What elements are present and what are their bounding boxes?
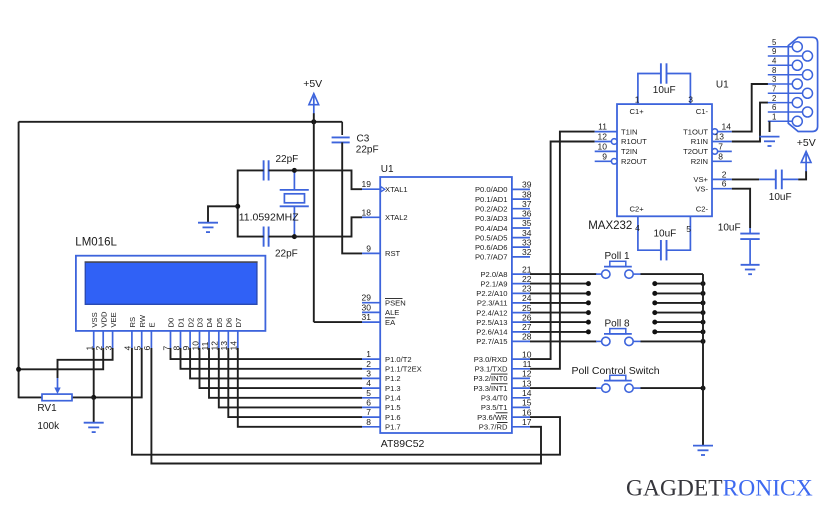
wire P3.0 RXD to R1OUT: [530, 142, 595, 360]
svg-text:LM016L: LM016L: [75, 236, 117, 248]
svg-text:29: 29: [362, 293, 372, 303]
label 10uF VS+: [769, 192, 792, 203]
max232 left pin numbers: [598, 122, 608, 162]
+5V power symbol: [309, 94, 319, 114]
svg-text:7: 7: [366, 407, 371, 417]
svg-text:11: 11: [523, 359, 532, 369]
svg-text:+5V: +5V: [303, 78, 322, 90]
svg-text:22pF: 22pF: [276, 154, 299, 165]
svg-text:31: 31: [362, 312, 372, 322]
svg-text:8: 8: [772, 66, 776, 75]
svg-text:23: 23: [522, 284, 532, 294]
svg-text:RS: RS: [128, 317, 137, 328]
svg-text:U1: U1: [381, 164, 394, 175]
mcu left pin names: [385, 185, 422, 432]
label 22pF top: [276, 154, 299, 165]
svg-text:9: 9: [602, 151, 607, 161]
svg-text:RV1: RV1: [37, 403, 57, 414]
svg-text:D5: D5: [215, 318, 224, 328]
ground crystal: [198, 223, 218, 232]
svg-text:4: 4: [635, 223, 640, 233]
svg-text:E: E: [148, 322, 157, 327]
svg-text:D2: D2: [186, 318, 195, 328]
db9 pin lines: [768, 47, 808, 122]
label U1 (AT89C52): [381, 164, 394, 175]
svg-text:12: 12: [598, 132, 608, 142]
svg-text:MAX232: MAX232: [588, 220, 632, 232]
svg-text:9: 9: [772, 47, 776, 56]
svg-text:8: 8: [366, 417, 371, 427]
svg-text:10uF: 10uF: [653, 85, 676, 96]
max232 pin4/pin5 bottom stubs: [638, 216, 691, 250]
label +5V right: [797, 137, 816, 149]
svg-text:C2+: C2+: [630, 204, 645, 213]
svg-text:3: 3: [772, 75, 776, 84]
wire Poll1 to bus: [641, 273, 704, 275]
svg-text:37: 37: [522, 199, 532, 209]
+5V power symbol right: [801, 152, 811, 172]
node +5V rail junction: [311, 119, 316, 124]
svg-text:XTAL2: XTAL2: [385, 213, 408, 222]
wire +5V stem to EA: [313, 113, 315, 322]
svg-text:P2.7/A15: P2.7/A15: [476, 337, 507, 346]
svg-text:R1OUT: R1OUT: [621, 137, 647, 146]
svg-text:D4: D4: [205, 318, 214, 328]
node cap-ground tap: [235, 204, 240, 209]
svg-text:U1: U1: [716, 80, 729, 91]
label 10uF top: [653, 85, 676, 96]
wire cap left bus: [238, 170, 264, 236]
wire bottom cap to crystal node: [269, 236, 295, 238]
LCD LM016L body: [76, 256, 266, 331]
svg-text:16: 16: [522, 407, 532, 417]
wire P3.1 TXD to T1IN: [530, 132, 595, 369]
ground LCD: [84, 423, 104, 432]
wire E to P3.7: [151, 348, 541, 464]
svg-text:P1.3: P1.3: [385, 384, 401, 393]
svg-text:22pF: 22pF: [275, 248, 298, 259]
wire data bus D0-D7 staircase: [171, 348, 363, 427]
svg-text:EA: EA: [385, 318, 396, 327]
svg-text:R1IN: R1IN: [691, 137, 708, 146]
wire VS+ cap to +5V: [798, 171, 806, 179]
wire crystal bottom to XTAL2: [294, 217, 362, 236]
svg-text:10uF: 10uF: [718, 223, 741, 234]
svg-text:2: 2: [366, 359, 371, 369]
svg-text:Poll Control Switch: Poll Control Switch: [572, 365, 660, 377]
label crystal value: [239, 211, 300, 223]
svg-text:P2.6/A14: P2.6/A14: [476, 328, 507, 337]
svg-text:P0.3/AD3: P0.3/AD3: [475, 214, 508, 223]
svg-text:7: 7: [772, 85, 776, 94]
svg-text:P1.1/T2EX: P1.1/T2EX: [385, 365, 422, 374]
svg-text:P0.4/AD4: P0.4/AD4: [475, 224, 508, 233]
node LCD ground node: [91, 395, 96, 400]
svg-text:P3.1/TXD: P3.1/TXD: [475, 365, 508, 374]
svg-text:P3.7/RD: P3.7/RD: [479, 423, 508, 432]
label pin 1: [635, 94, 640, 104]
wire top cap to crystal node: [269, 169, 295, 171]
svg-text:P1.0/T2: P1.0/T2: [385, 355, 412, 364]
wire pot right lead: [72, 396, 94, 398]
svg-text:13: 13: [715, 132, 725, 142]
svg-text:14: 14: [522, 388, 532, 398]
svg-text:GAGDETRONICX: GAGDETRONICX: [626, 476, 813, 502]
LCD pin name labels: [90, 311, 243, 328]
svg-text:P2.0/A8: P2.0/A8: [480, 270, 507, 279]
label U1 (MAX232): [716, 80, 729, 91]
wire DB9 pin1 to ground: [769, 121, 771, 132]
svg-text:15: 15: [522, 398, 532, 408]
max232 inner pin names: [621, 107, 709, 213]
label C3 value 22pF: [356, 145, 379, 156]
svg-text:1: 1: [772, 113, 776, 122]
resistor RV1 wiper arrow: [54, 378, 60, 394]
svg-text:D1: D1: [177, 318, 186, 328]
label pin 3: [688, 94, 693, 104]
svg-text:9: 9: [366, 243, 371, 253]
wire T1OUT to DB9 pin3: [732, 84, 768, 132]
wire +5V rail top horizontal: [19, 121, 343, 123]
svg-text:33: 33: [522, 237, 532, 247]
node crystal top: [292, 168, 297, 173]
svg-text:Poll 8: Poll 8: [605, 319, 630, 330]
svg-text:100k: 100k: [37, 421, 60, 432]
wire RS to P3.6: [132, 348, 560, 455]
svg-text:R2OUT: R2OUT: [621, 157, 647, 166]
svg-text:4: 4: [772, 57, 777, 66]
svg-text:XTAL1: XTAL1: [385, 185, 408, 194]
svg-text:P3.3/INT1: P3.3/INT1: [473, 384, 507, 393]
svg-text:P1.7: P1.7: [385, 423, 401, 432]
svg-text:P0.0/AD0: P0.0/AD0: [475, 185, 508, 194]
svg-text:P3.0/RXD: P3.0/RXD: [474, 355, 508, 364]
wire ground node stem: [93, 397, 95, 422]
svg-text:+5V: +5V: [797, 137, 816, 149]
label 10uF bottom: [654, 229, 677, 240]
capacitor 22pF top: [264, 160, 269, 180]
logo GAGDETRONICX: [626, 476, 813, 502]
svg-text:P2.2/A10: P2.2/A10: [476, 289, 507, 298]
mcu right pin stubs: [512, 189, 530, 426]
svg-text:11: 11: [598, 122, 607, 132]
max232 left pin stubs with bubbles: [595, 132, 617, 165]
svg-text:P1.2: P1.2: [385, 374, 401, 383]
svg-text:VS+: VS+: [693, 175, 708, 184]
svg-text:10uF: 10uF: [654, 229, 677, 240]
svg-text:C1-: C1-: [696, 107, 709, 116]
svg-text:D6: D6: [225, 318, 234, 328]
svg-text:P1.5: P1.5: [385, 403, 401, 412]
wire P2.1-P2.6 stub rows with junction dots: [530, 281, 706, 334]
svg-text:P0.5/AD5: P0.5/AD5: [475, 233, 508, 242]
svg-text:P2.1/A9: P2.1/A9: [480, 279, 507, 288]
connector J1 DB9 shell: [788, 37, 817, 131]
svg-text:2: 2: [772, 94, 776, 103]
svg-text:VDD: VDD: [99, 311, 108, 328]
svg-text:VSS: VSS: [90, 312, 99, 327]
svg-text:24: 24: [522, 293, 532, 303]
db9 pin circles: [792, 42, 812, 127]
label pin 5: [686, 224, 691, 234]
svg-text:27: 27: [522, 322, 532, 332]
svg-text:36: 36: [522, 209, 532, 219]
svg-text:VEE: VEE: [109, 312, 118, 327]
svg-text:RW: RW: [138, 314, 147, 327]
svg-text:4: 4: [366, 378, 371, 388]
svg-text:6: 6: [772, 103, 776, 112]
label Poll 1: [605, 251, 630, 262]
wire EA to +5V rail: [314, 321, 362, 323]
svg-text:T1IN: T1IN: [621, 127, 637, 136]
svg-text:P0.2/AD2: P0.2/AD2: [475, 205, 508, 214]
wire Poll8 to bus: [641, 339, 706, 344]
svg-text:RST: RST: [385, 249, 401, 258]
capacitor C5 10uF VS-: [740, 228, 759, 265]
capacitor C2 10uF bottom: [661, 240, 667, 260]
wire VS- lead: [732, 189, 750, 228]
svg-text:AT89C52: AT89C52: [381, 438, 425, 450]
mcu XTAL1 clock arrow: [381, 187, 385, 192]
svg-text:39: 39: [522, 180, 532, 190]
max232 right pin numbers: [715, 122, 732, 189]
svg-text:P3.6/WR: P3.6/WR: [477, 413, 508, 422]
node VDD rail tap: [16, 367, 21, 372]
+5V power label: [303, 78, 322, 90]
label MAX232: [588, 220, 632, 232]
max232 right pin stubs with bubbles: [712, 129, 732, 189]
svg-text:1: 1: [635, 94, 640, 104]
svg-text:12: 12: [522, 369, 532, 379]
ground VS- cap: [741, 265, 760, 274]
svg-text:3: 3: [366, 368, 371, 378]
LCD screen: [85, 262, 258, 304]
svg-text:P3.4/T0: P3.4/T0: [481, 394, 508, 403]
label C3: [357, 133, 370, 144]
svg-text:D3: D3: [196, 318, 205, 328]
svg-text:C1+: C1+: [630, 107, 645, 116]
svg-text:C2-: C2-: [696, 204, 709, 213]
svg-text:10uF: 10uF: [769, 192, 792, 203]
svg-text:P1.6: P1.6: [385, 413, 401, 422]
svg-text:30: 30: [362, 302, 372, 312]
svg-text:ALE: ALE: [385, 308, 399, 317]
svg-text:P0.6/AD6: P0.6/AD6: [475, 243, 508, 252]
svg-text:8: 8: [718, 151, 723, 161]
svg-text:T2OUT: T2OUT: [683, 147, 708, 156]
wire pot left lead: [19, 396, 42, 398]
switch Poll Control pushbutton: [596, 375, 641, 392]
svg-text:5: 5: [772, 38, 777, 47]
label Poll Control Switch: [572, 365, 660, 377]
LCD pin stubs: [94, 331, 238, 348]
svg-text:11.0592MHZ: 11.0592MHZ: [239, 211, 300, 223]
svg-text:P1.4: P1.4: [385, 394, 401, 403]
capacitor C3: [332, 137, 350, 142]
svg-text:22: 22: [522, 274, 532, 284]
svg-text:25: 25: [522, 303, 532, 313]
wire VS+ lead: [732, 178, 759, 180]
svg-text:P0.7/AD7: P0.7/AD7: [475, 253, 508, 262]
ground DB9 pin1: [760, 137, 780, 146]
svg-text:PSEN: PSEN: [385, 299, 406, 308]
mcu right pin names: [473, 185, 508, 431]
svg-text:32: 32: [522, 247, 532, 257]
svg-text:34: 34: [522, 228, 532, 238]
svg-text:22pF: 22pF: [356, 145, 379, 156]
capacitor C4 10uF VS+: [759, 170, 798, 190]
svg-text:D7: D7: [234, 318, 243, 328]
wire C3 to RST: [342, 142, 362, 253]
label RV1 value 100k: [37, 421, 60, 432]
svg-text:P3.5/T1: P3.5/T1: [481, 403, 508, 412]
label 10uF VS-: [718, 223, 741, 234]
svg-text:P0.1/AD1: P0.1/AD1: [475, 195, 508, 204]
svg-text:Poll 1: Poll 1: [605, 251, 630, 262]
svg-text:6: 6: [366, 397, 371, 407]
svg-text:28: 28: [522, 332, 532, 342]
svg-text:6: 6: [722, 179, 727, 189]
svg-text:P2.4/A12: P2.4/A12: [476, 308, 507, 317]
svg-text:21: 21: [522, 264, 532, 274]
db9 pin numbers: [772, 38, 777, 122]
svg-text:13: 13: [522, 378, 532, 388]
svg-text:18: 18: [362, 207, 372, 217]
capacitor C1 10uF top: [661, 63, 667, 83]
label RV1: [37, 403, 57, 414]
wire ground tap: [208, 206, 238, 222]
label Poll 8: [605, 319, 630, 330]
wire VEE to pot wiper: [58, 348, 113, 378]
wire P2.7 to Poll8 switch: [530, 340, 597, 342]
svg-text:5: 5: [366, 388, 371, 398]
wire C3 top lead: [341, 122, 343, 135]
svg-text:26: 26: [522, 312, 532, 322]
capacitor 22pF bottom: [264, 227, 269, 247]
wire crystal top to XTAL1: [294, 170, 362, 189]
svg-text:D0: D0: [167, 318, 176, 328]
wire PollControl to bus: [641, 386, 706, 391]
svg-text:17: 17: [522, 417, 532, 427]
svg-text:10: 10: [598, 141, 608, 151]
svg-text:P2.5/A13: P2.5/A13: [476, 318, 507, 327]
svg-text:P2.3/A11: P2.3/A11: [477, 299, 508, 308]
svg-text:7: 7: [718, 141, 723, 151]
wire VDD to +5V rail: [19, 348, 104, 369]
wire VSS to ground node: [93, 348, 95, 397]
mcu right pin numbers: [522, 180, 532, 427]
svg-text:R2IN: R2IN: [691, 157, 708, 166]
svg-text:T2IN: T2IN: [621, 147, 637, 156]
mcu left pin numbers: [362, 179, 372, 427]
svg-text:38: 38: [522, 189, 532, 199]
svg-text:5: 5: [686, 224, 691, 234]
wire RW to ground node: [94, 348, 142, 397]
label AT89C52: [381, 438, 425, 450]
node crystal bottom: [292, 234, 297, 239]
ic U2 MAX232 body: [617, 104, 712, 216]
mcu pin name overlines: [491, 374, 508, 422]
wire left rail vertical: [18, 122, 20, 398]
svg-text:1: 1: [366, 349, 371, 359]
wire P2.0 to Poll1 switch: [530, 273, 597, 275]
svg-text:T1OUT: T1OUT: [683, 127, 708, 136]
svg-text:35: 35: [522, 218, 532, 228]
svg-text:3: 3: [688, 94, 693, 104]
switch Poll 8 pushbutton: [596, 329, 641, 346]
switch Poll 1 pushbutton: [596, 261, 641, 278]
svg-text:VS-: VS-: [695, 185, 708, 194]
mcu left pin stubs: [362, 189, 380, 427]
label 22pF bottom: [275, 248, 298, 259]
label pin 4: [635, 223, 640, 233]
ground poll bus: [693, 446, 713, 455]
svg-text:19: 19: [362, 179, 372, 189]
svg-text:C3: C3: [357, 133, 370, 144]
LCD pin numbers 1-14: [85, 341, 239, 351]
resistor RV1 pot body: [42, 394, 72, 401]
crystal X1 11.0592MHZ: [280, 170, 309, 236]
label LM016L: [75, 236, 117, 248]
max232 pin1/pin3 top stubs: [638, 74, 691, 105]
svg-text:14: 14: [722, 122, 732, 132]
wire R1IN to DB9 pin2: [732, 103, 768, 142]
wire P3.3 to Poll Control switch: [530, 387, 597, 389]
mcu U1 AT89C52 body: [380, 177, 512, 433]
wire poll common bus: [702, 274, 704, 446]
svg-text:10: 10: [522, 349, 532, 359]
svg-text:P3.2/INT0: P3.2/INT0: [473, 374, 507, 383]
